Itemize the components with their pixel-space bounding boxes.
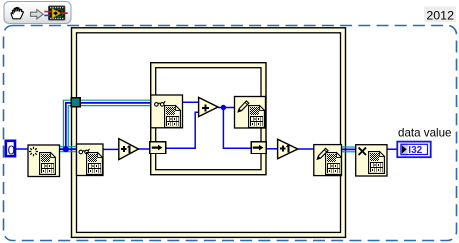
while loop (outer structure) (72, 28, 346, 238)
wire: close node to indicator (387, 148, 397, 150)
increment +1 (left) (119, 139, 139, 160)
glasses glyph (79, 149, 90, 154)
toolbar (4, 2, 71, 24)
wire: node2 to increment (103, 148, 119, 150)
refnum tunnel (teal square on loop border) (71, 98, 80, 107)
wire: read node to add (top input) (183, 101, 199, 103)
wire: increment to left shift register (139, 148, 152, 150)
svg-text:data value: data value (398, 127, 452, 140)
X glyph (359, 148, 366, 155)
I32 indicator (397, 142, 430, 158)
close datalog node (356, 145, 387, 176)
sparkle glyph (29, 147, 38, 156)
right shift register (251, 142, 266, 154)
outer write datalog node (on loop border) (314, 145, 342, 176)
inner write datalog node (235, 97, 266, 129)
glasses glyph (155, 101, 166, 106)
numeric constant 0 (6, 141, 15, 158)
wire junction dot (63, 146, 69, 152)
add function (199, 97, 218, 116)
wire: increment to outer write node (298, 148, 314, 150)
open datalog node (28, 145, 60, 177)
VI snippet icon (44, 6, 68, 20)
pencil glyph (317, 148, 328, 159)
wire: 0 constant to open node (16, 148, 29, 150)
increment +1 (right) (278, 139, 298, 159)
wire: add output to write node and down to right shift register (218, 108, 252, 149)
left shift register (150, 142, 166, 154)
wire: refnum bundle up and into inner loop read node (63, 100, 152, 148)
inner loop (inner structure) (151, 63, 266, 175)
inner read datalog node (151, 95, 183, 128)
wire: right shift register to increment (266, 148, 277, 150)
wire: datalog refnum bundle open node to junction to node2 (60, 147, 78, 152)
wire: refnum bundle outer write node to close node (342, 147, 356, 152)
hand tool icon (11, 7, 23, 18)
2012 version label (424, 7, 456, 23)
svg-text:0: 0 (8, 142, 15, 157)
pencil glyph (238, 101, 249, 112)
svg-text:I32: I32 (408, 145, 422, 156)
arrow tool icon (31, 10, 44, 19)
read datalog node (on loop border) (77, 144, 104, 176)
wire: left shift register to add (bottom input) (166, 112, 199, 148)
svg-text:2012: 2012 (426, 9, 454, 23)
